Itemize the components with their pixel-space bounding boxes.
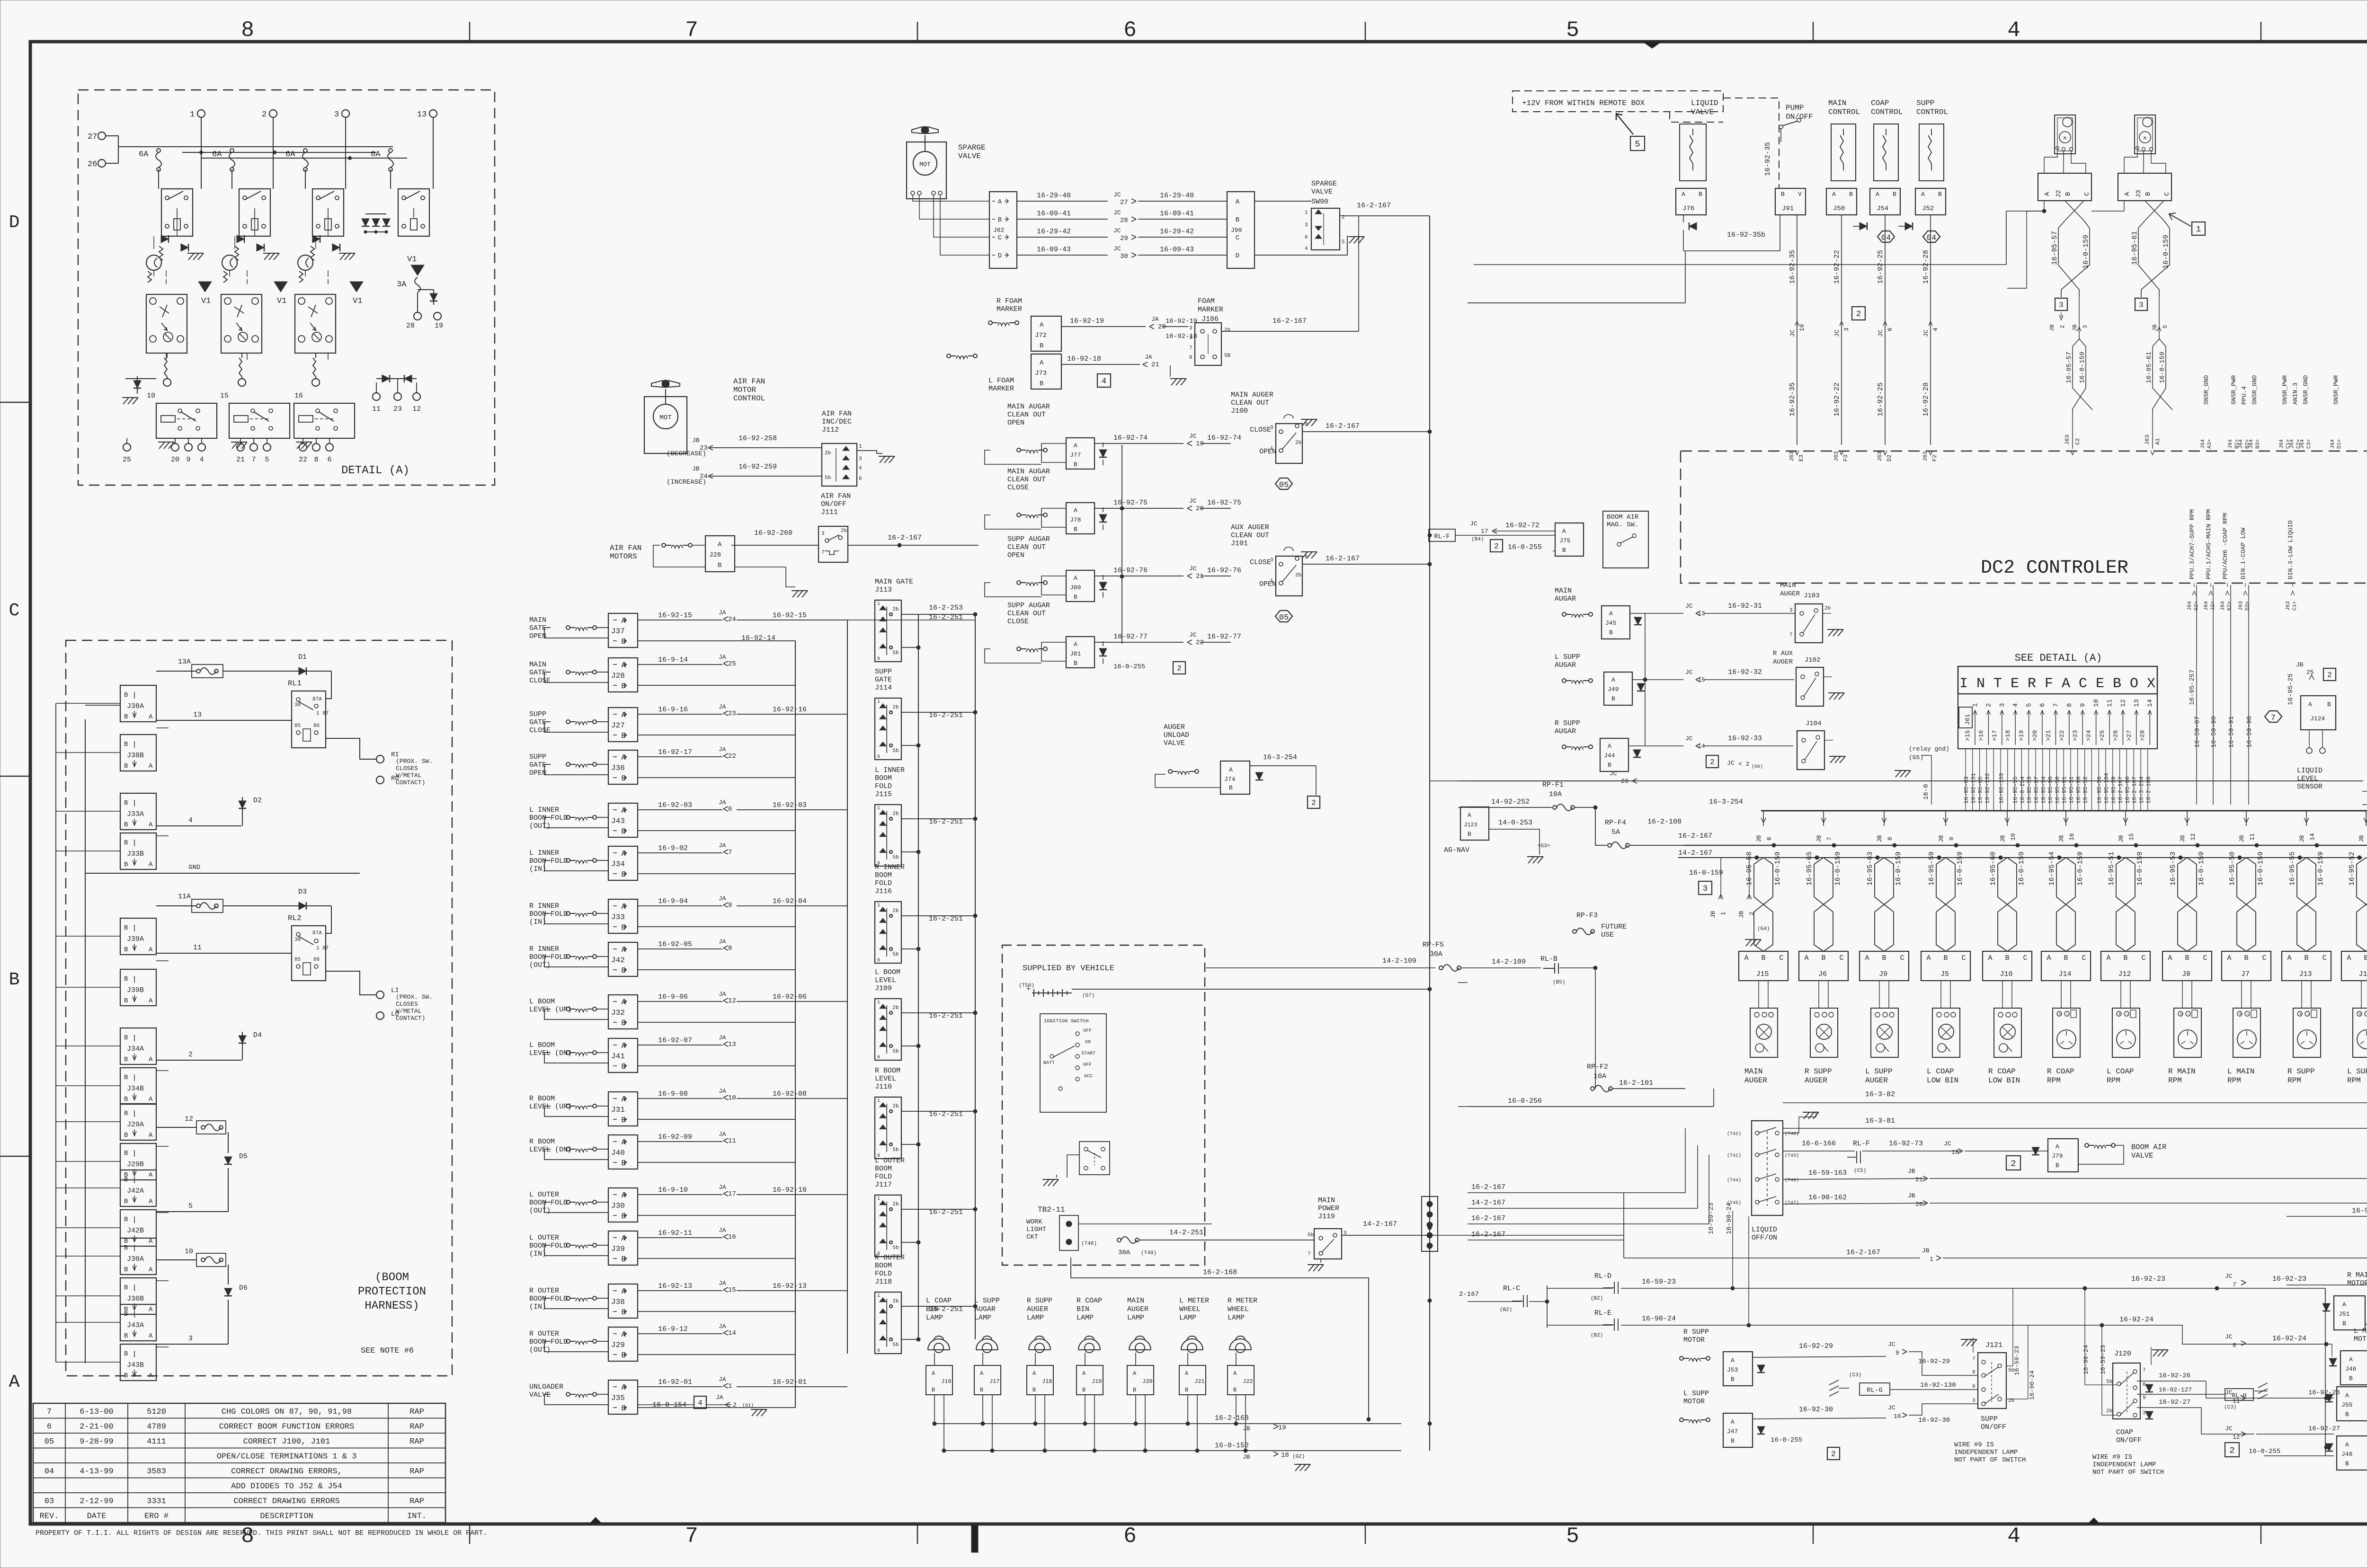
svg-text:18: 18 [1951,1149,1959,1156]
svg-text:J64: J64 [2220,601,2226,611]
svg-text:A: A [1731,1357,1735,1364]
twisted pair 16-95-60 [2016,843,2020,847]
svg-text:L MAIN: L MAIN [2354,1327,2367,1335]
J3 lower twisted pair [2153,339,2172,413]
svg-text:JA: JA [1151,316,1159,323]
svg-text:9: 9 [1948,837,1955,841]
svg-text:PROPERTY OF T.I.I. ALL RIGHT: PROPERTY OF T.I.I. ALL RIGHTS OF DESIGN … [36,1529,487,1537]
svg-text:9: 9 [1895,1349,1899,1356]
switch for J32 [566,1007,596,1012]
svg-text:R SUPP: R SUPP [1683,1328,1709,1336]
svg-text:CLEAN OUT: CLEAN OUT [1007,476,1046,484]
svg-text:LAMP: LAMP [974,1314,991,1322]
svg-text:R COAP: R COAP [1077,1297,1102,1305]
svg-text:B: B [1761,954,1765,962]
lamp J18 glyph [1029,1336,1050,1353]
svg-text:16-92-18: 16-92-18 [1166,333,1197,340]
svg-text:16-92-72: 16-92-72 [1505,522,1539,530]
svg-text:4: 4 [1932,328,1939,331]
connector J33B [120,833,156,869]
switch for J35 [566,1392,596,1397]
lamp J16 glyph [928,1336,950,1353]
connector J77 [1066,438,1095,469]
svg-text:IGNITION SWITCH: IGNITION SWITCH [1044,1019,1089,1024]
lamp J16 wires [934,1353,935,1365]
svg-text:16-95-57: 16-95-57 [2051,231,2059,265]
svg-text:2: 2 [188,1051,193,1059]
bus connecting J119 to right [1430,1235,1624,1236]
svg-text:16-2-167: 16-2-167 [1471,1214,1505,1223]
svg-text:J63: J63 [1789,451,1795,461]
svg-text:10: 10 [2093,699,2100,707]
svg-text:R BOOM: R BOOM [875,1067,900,1075]
svg-text:16-0-159: 16-0-159 [2257,851,2265,886]
svg-text:1: 1 [1305,210,1308,216]
svg-text:JB: JB [2179,835,2186,842]
svg-text:J38B: J38B [127,752,144,760]
svg-text:J48: J48 [2341,1451,2352,1458]
svg-text:6: 6 [877,1348,880,1354]
svg-text:16-92-24: 16-92-24 [2119,1316,2153,1324]
svg-text:4111: 4111 [147,1437,166,1446]
svg-text:MAIN: MAIN [1780,582,1796,589]
svg-text:BOOM FOLD: BOOM FOLD [529,1242,568,1250]
note box 1 arrow [2192,222,2205,235]
connector J38B [120,735,156,771]
svg-text:16-95-51: 16-95-51 [2108,851,2116,886]
svg-text:>17: >17 [1991,730,1998,741]
svg-text:16-2-167: 16-2-167 [1471,1231,1505,1239]
J3 feed wire [2124,201,2125,211]
svg-text:JB: JB [1738,911,1745,918]
svg-text:DIN.3-LOW LIQUID: DIN.3-LOW LIQUID [2287,520,2294,579]
connector J14 [2041,951,2091,981]
svg-text:D3>: D3> [2245,601,2251,611]
svg-text:CLOSE: CLOSE [529,726,551,735]
svg-text:A: A [2342,1301,2346,1308]
svg-text:J51: J51 [2339,1311,2350,1318]
svg-text:-: - [2126,1012,2129,1018]
svg-text:7: 7 [1826,837,1833,841]
connector wire 4 [156,825,241,826]
sparge ground [1348,237,1364,243]
svg-text:C: C [2262,954,2266,962]
zone tick marks left/right [0,402,30,403]
svg-text:(C3): (C3) [2224,1405,2236,1410]
svg-text:L SUPP: L SUPP [1683,1390,1709,1398]
svg-text:JB: JB [2358,835,2365,842]
svg-text:B: B [124,1056,128,1063]
svg-text:RP-F4: RP-F4 [1605,819,1626,827]
svg-text:16-9-14: 16-9-14 [658,656,688,664]
connector J81 [1066,637,1095,668]
svg-text:16-95-60: 16-95-60 [2124,776,2131,804]
svg-text:11A: 11A [178,893,191,901]
svg-text:30: 30 [294,702,301,708]
svg-text:5A: 5A [1611,828,1620,836]
svg-text:MOTOR: MOTOR [1683,1336,1705,1344]
detail A relay box 3 [312,189,344,236]
svg-text:5: 5 [265,456,269,464]
svg-text:SENSOR: SENSOR [2297,783,2323,791]
RL-F boxed relay [1429,529,1455,541]
svg-text:6A: 6A [139,150,149,159]
svg-text:L BOOM: L BOOM [875,968,900,976]
svg-text:MAIN: MAIN [529,661,546,669]
svg-text:B: B [124,713,128,721]
svg-text:B: B [124,1198,128,1205]
svg-text:8: 8 [2233,1342,2236,1349]
connector J75 [1555,523,1584,556]
svg-text:04: 04 [44,1467,54,1476]
svg-text:JC: JC [1113,245,1121,252]
svg-text:1: 1 [1930,1256,1933,1263]
svg-text:16-0-159: 16-0-159 [2317,851,2325,886]
svg-text:J79: J79 [2052,1152,2063,1160]
svg-text:RPM: RPM [2347,1076,2361,1085]
svg-text:16-92-132: 16-92-132 [1984,773,1991,804]
wire 11 [156,953,292,954]
lamp J20 wires [1135,1353,1136,1365]
svg-text:FOAM: FOAM [1198,297,1215,305]
svg-text:SEE NOTE #6: SEE NOTE #6 [361,1347,414,1355]
hexagon 04 supp [1923,231,1940,242]
svg-text:1: 1 [877,1196,880,1202]
air fan J112 ground [879,456,895,463]
svg-text:27: 27 [88,133,97,142]
lamp connector J17 [974,1365,1001,1395]
note box 2 16-0-255 [2225,1443,2239,1457]
svg-text:OPEN: OPEN [1259,448,1276,456]
svg-text:BIN: BIN [1077,1305,1089,1313]
svg-text:16-90-24: 16-90-24 [2082,1345,2090,1374]
svg-text:MAIN: MAIN [529,616,546,624]
svg-text:16-92-74: 16-92-74 [1207,434,1241,442]
svg-text:26: 26 [88,160,97,169]
svg-text:ON: ON [1085,1040,1091,1045]
column bus wires [795,641,796,1408]
svg-text:W/METAL: W/METAL [396,772,422,779]
svg-text:1: 1 [1270,578,1273,584]
svg-text:AUGAR: AUGAR [1555,661,1576,669]
svg-text:NOT PART OF SWITCH: NOT PART OF SWITCH [2092,1469,2164,1476]
svg-text:(IN): (IN) [529,1250,546,1258]
svg-text:30A: 30A [1430,950,1442,958]
svg-text:C: C [1779,954,1783,962]
lamp bus 16-0-152 [944,1450,1401,1451]
svg-text:04: 04 [1881,234,1891,243]
svg-text:(IN): (IN) [529,1303,546,1311]
sparge wires J82-J90 [1017,201,1108,202]
valve connector J116 [875,902,901,963]
svg-text:OPEN: OPEN [529,769,546,777]
svg-text:JB: JB [2238,835,2245,842]
svg-text:B: B [980,1387,983,1393]
svg-text:L INNER: L INNER [529,849,559,857]
svg-text:5b: 5b [892,1342,899,1348]
svg-text:LAMP: LAMP [1179,1314,1196,1322]
svg-text:16-92-133: 16-92-133 [1998,773,2005,804]
svg-text:R INNER: R INNER [529,902,559,910]
svg-text:2b: 2b [841,528,847,534]
svg-text:6: 6 [1123,1524,1137,1549]
svg-text:J76: J76 [1682,205,1694,213]
connector J91 [1775,188,1806,215]
svg-text:16-2-167: 16-2-167 [1471,1183,1505,1191]
svg-text:AUGER: AUGER [1744,1076,1767,1085]
switch J80 [1017,581,1047,585]
svg-text:A: A [149,1332,153,1340]
detail A pin 3 [342,110,349,117]
svg-text:6: 6 [2039,703,2047,707]
svg-text:JB: JB [692,465,700,472]
svg-text:AUGER: AUGER [1780,590,1800,598]
svg-text:J102: J102 [1805,656,1821,664]
svg-text:SUPP: SUPP [529,710,546,718]
svg-text:SPARGE: SPARGE [1311,180,1337,188]
svg-text:CONTACT): CONTACT) [396,779,425,786]
svg-text:M: M [2144,136,2146,142]
J3 BC crossing [2145,201,2164,221]
svg-text:D6: D6 [239,1284,248,1292]
svg-text:J37: J37 [611,627,625,636]
svg-text:+: + [2180,1012,2183,1018]
svg-text:16-59-87: 16-59-87 [2194,716,2201,748]
svg-text:C: C [2203,954,2207,962]
svg-text:4: 4 [188,816,193,824]
svg-text:J36: J36 [611,764,625,772]
svg-text:(INCREASE): (INCREASE) [667,478,706,486]
svg-text:J63: J63 [2144,434,2151,445]
svg-text:16-92-04: 16-92-04 [773,897,807,905]
connector J29 [608,1327,638,1361]
svg-text:J114: J114 [875,684,892,692]
main harness bus upper [1761,810,2367,812]
switch for J38 [566,1296,596,1301]
zone tick marks top/bottom [469,22,471,42]
svg-text:B: B [1611,695,1615,702]
connector J7 [2222,951,2271,981]
svg-text:B: B [1074,660,1077,667]
twisted pair 16-95-51 [2134,843,2138,847]
lamp connector J19 [1077,1365,1103,1395]
svg-text:16-0-159: 16-0-159 [2162,235,2170,269]
svg-text:C2: C2 [2074,438,2081,445]
svg-text:2-12-99: 2-12-99 [80,1497,113,1506]
svg-text:4789: 4789 [147,1423,166,1432]
svg-text:JC: JC [1189,565,1197,572]
svg-text:(T42): (T42) [1727,1131,1741,1137]
svg-text:16-0-152: 16-0-152 [1215,1442,1249,1450]
svg-text:A: A [9,1372,20,1392]
svg-text:19: 19 [1196,440,1204,448]
svg-text:SNSR_PWR: SNSR_PWR [2281,375,2288,405]
switch for J41 [566,1051,596,1055]
svg-text:JA: JA [719,703,726,710]
svg-text:J55: J55 [2341,1401,2352,1409]
svg-text:ANIN.3: ANIN.3 [2292,382,2299,405]
svg-text:16-95-52: 16-95-52 [2348,851,2356,886]
svg-text:J43A: J43A [127,1321,144,1329]
svg-text:JA: JA [719,1280,726,1287]
svg-text:L INNER: L INNER [875,766,905,774]
svg-text:4: 4 [2007,18,2020,43]
svg-text:16-92-28: 16-92-28 [1922,250,1930,284]
svg-text:16: 16 [294,392,303,400]
svg-text:6: 6 [327,456,331,464]
drop wires 16-59 group [2196,585,2197,805]
svg-text:05: 05 [1279,613,1289,622]
svg-text:GATE: GATE [529,718,546,726]
svg-text:16-92-29: 16-92-29 [1918,1358,1950,1365]
svg-text:A: A [2047,954,2051,962]
svg-text:(PROX. SW.: (PROX. SW. [396,758,433,765]
svg-text:16-92-15: 16-92-15 [658,611,692,620]
right bus wires [918,614,919,1339]
svg-text:B: B [1074,461,1077,468]
svg-text:-: - [2246,1012,2250,1018]
svg-text:25: 25 [2306,669,2314,676]
svg-text:1: 1 [877,1000,880,1005]
svg-text:03: 03 [44,1497,54,1506]
svg-text:B: B [1040,380,1043,388]
svg-text:CORRECT BOOM FUNCTION ERRORS: CORRECT BOOM FUNCTION ERRORS [219,1423,355,1432]
svg-text:16-95-57: 16-95-57 [2065,352,2073,383]
svg-text:13: 13 [193,711,202,719]
svg-text:(C3): (C3) [1849,1373,1861,1378]
hexagon 04 coap [1878,231,1895,242]
svg-text:>20: >20 [2031,730,2038,741]
svg-text:LEVEL (UP): LEVEL (UP) [529,1103,572,1111]
svg-text:15: 15 [1698,676,1705,683]
connector J42B [120,1210,156,1246]
svg-text:B: B [1821,954,1825,962]
svg-text:30: 30 [294,937,301,943]
svg-text:16-0-159: 16-0-159 [1956,851,1964,886]
svg-text:(G7): (G7) [1082,993,1095,999]
connector J5 [1921,951,1970,981]
svg-text:2b: 2b [892,908,899,914]
svg-text:5b: 5b [892,1245,899,1251]
JB branch 10 [2007,811,2008,826]
svg-text:CORRECT DRAWING ERRORS,: CORRECT DRAWING ERRORS, [231,1467,342,1476]
detail A relay box 1 [161,189,193,236]
svg-text:DC2 CONTROLER: DC2 CONTROLER [1981,558,2128,579]
svg-text:5b: 5b [892,1049,899,1054]
svg-text:16-95-50: 16-95-50 [2228,851,2236,886]
detail A dashed enclosure [78,90,495,485]
svg-text:MARKER: MARKER [1198,306,1223,314]
svg-text:2: 2 [1748,912,1755,915]
connector J2 [2038,173,2091,201]
svg-text:16-92-09: 16-92-09 [658,1133,692,1141]
svg-text:JC: JC [2225,1425,2233,1432]
svg-text:JA: JA [719,654,726,661]
svg-text:L MAIN: L MAIN [2227,1067,2255,1076]
svg-text:BOOM: BOOM [875,1262,892,1270]
svg-text:21: 21 [1196,573,1204,580]
svg-text:20: 20 [1158,323,1166,331]
svg-text:(OUT): (OUT) [529,1346,551,1354]
svg-text:J103: J103 [1804,592,1820,600]
svg-text:RAP: RAP [409,1423,424,1432]
svg-text:4: 4 [199,456,204,464]
svg-text:B: B [124,839,128,847]
diode J52 [1905,222,1913,230]
svg-text:J104: J104 [1806,720,1822,727]
svg-text:9: 9 [1972,1384,1975,1390]
svg-text:MOTOR: MOTOR [2354,1335,2367,1343]
svg-text:GND: GND [188,864,200,871]
svg-text:B: B [932,1387,935,1393]
svg-text:RAP: RAP [409,1467,424,1476]
svg-text:28: 28 [406,322,415,330]
svg-text:+12V FROM WITHIN REMOTE BOX: +12V FROM WITHIN REMOTE BOX [1522,99,1645,107]
svg-text:J3: J3 [2135,190,2143,198]
svg-text:DIN.1-COAP LOW: DIN.1-COAP LOW [2240,528,2247,579]
svg-text:J42: J42 [611,956,625,965]
svg-text:7: 7 [1189,345,1192,351]
svg-text:16-92-127: 16-92-127 [2159,1386,2192,1393]
switch for J28 [566,670,596,675]
svg-text:4: 4 [859,466,862,471]
svg-text:J63: J63 [1922,451,1929,461]
svg-text:R METER: R METER [1228,1297,1257,1305]
svg-text:A: A [1876,191,1879,198]
svg-text:MOTORS: MOTORS [610,552,637,561]
connector J3 [2118,173,2171,201]
svg-text:J90: J90 [1231,227,1242,234]
svg-text:25: 25 [123,456,131,464]
svg-text:J30A: J30A [127,1255,144,1263]
svg-text:(B2): (B2) [1500,1307,1512,1313]
lamp connector J18 [1027,1365,1053,1395]
svg-text:1: 1 [877,806,880,811]
svg-text:2b: 2b [892,607,899,612]
svg-text:CORRECT J100, J101: CORRECT J100, J101 [243,1437,330,1446]
svg-text:V: V [1798,191,1802,198]
svg-text:13A: 13A [178,658,191,666]
svg-text:16-90-24: 16-90-24 [1642,1315,1676,1323]
svg-text:(IN): (IN) [529,865,546,873]
svg-text:J21: J21 [1194,1378,1205,1385]
svg-text:16-92-06: 16-92-06 [773,993,807,1001]
svg-text:16-95-51: 16-95-51 [2068,776,2075,804]
svg-text:2: 2 [1311,799,1316,807]
connector J50 [1826,188,1857,215]
connector J6 [1799,951,1848,981]
svg-text:OPEN: OPEN [529,632,546,640]
svg-text:5: 5 [1566,18,1579,43]
svg-text:16-95-52: 16-95-52 [2082,776,2089,804]
box right stubs [156,727,169,728]
svg-text:87A: 87A [312,930,322,936]
svg-text:GATE: GATE [529,761,546,769]
svg-text:J53: J53 [1727,1366,1738,1373]
JB branch 12 [2187,811,2188,826]
svg-text:16-9-04: 16-9-04 [658,897,688,905]
svg-text:16-0-159: 16-0-159 [1774,851,1782,886]
svg-text:2: 2 [1710,758,1715,767]
svg-text:16-92-75: 16-92-75 [1113,499,1148,507]
wire 3 [156,1344,228,1345]
svg-text:JC: JC [1877,329,1884,337]
svg-text:16-59-23: 16-59-23 [1708,1203,1715,1234]
trunk lines x3100 stubs [1458,780,1468,781]
svg-text:13: 13 [1698,610,1705,617]
svg-text:7: 7 [1972,1356,1975,1362]
svg-text:A: A [1804,954,1808,962]
